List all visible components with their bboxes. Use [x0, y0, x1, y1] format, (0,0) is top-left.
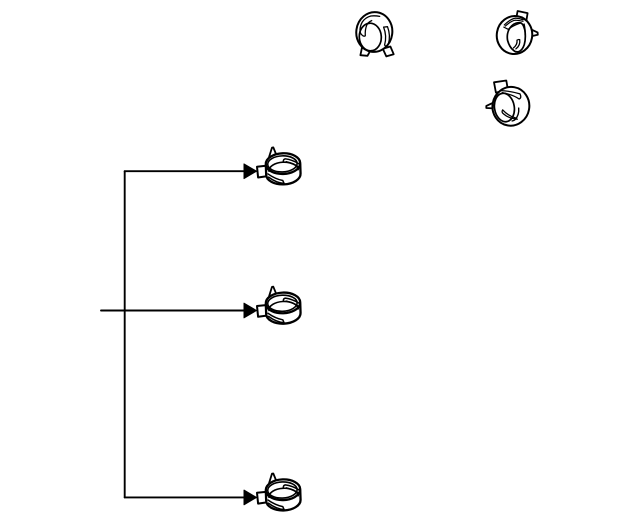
upper-left slot: [505, 20, 523, 26]
wire: middle branch with left stub: [101, 310, 245, 312]
upper-left score line: [504, 23, 521, 29]
foot right: [383, 47, 394, 57]
top tab: [516, 11, 528, 22]
rim inner edge: [504, 18, 523, 25]
inner opening: [492, 92, 516, 123]
arrow 1: [244, 164, 257, 179]
top-right slot: [501, 91, 521, 99]
wire: top branch: [125, 170, 245, 172]
clamp T1 (top middle): [354, 10, 395, 57]
foot left: [360, 48, 370, 56]
right spike: [531, 29, 538, 36]
outer ring: [494, 13, 535, 57]
arrow 2: [244, 303, 257, 318]
left spike: [486, 102, 495, 109]
outer ring: [489, 84, 532, 129]
clamp T3 (second row right): [486, 81, 532, 129]
rim inner edge lower right: [512, 108, 519, 121]
left inner slot: [360, 16, 380, 36]
lower slot: [502, 110, 517, 119]
clamp 2 (left middle): [257, 287, 301, 325]
clamp 1 (left top): [257, 147, 301, 185]
clamp T2 (top right): [494, 11, 538, 57]
clamp 3 (left bottom): [257, 474, 301, 512]
inner opening: [359, 23, 382, 52]
wire: bottom branch: [125, 496, 245, 498]
top-left tab: [494, 81, 508, 93]
right slot: [384, 27, 390, 47]
arrow 3: [244, 490, 257, 505]
inner opening: [507, 23, 525, 52]
band seam edge: [524, 24, 525, 35]
lower-right slot: [514, 39, 520, 48]
outer ring: [354, 10, 395, 54]
wire: vertical bracket line: [124, 171, 126, 497]
